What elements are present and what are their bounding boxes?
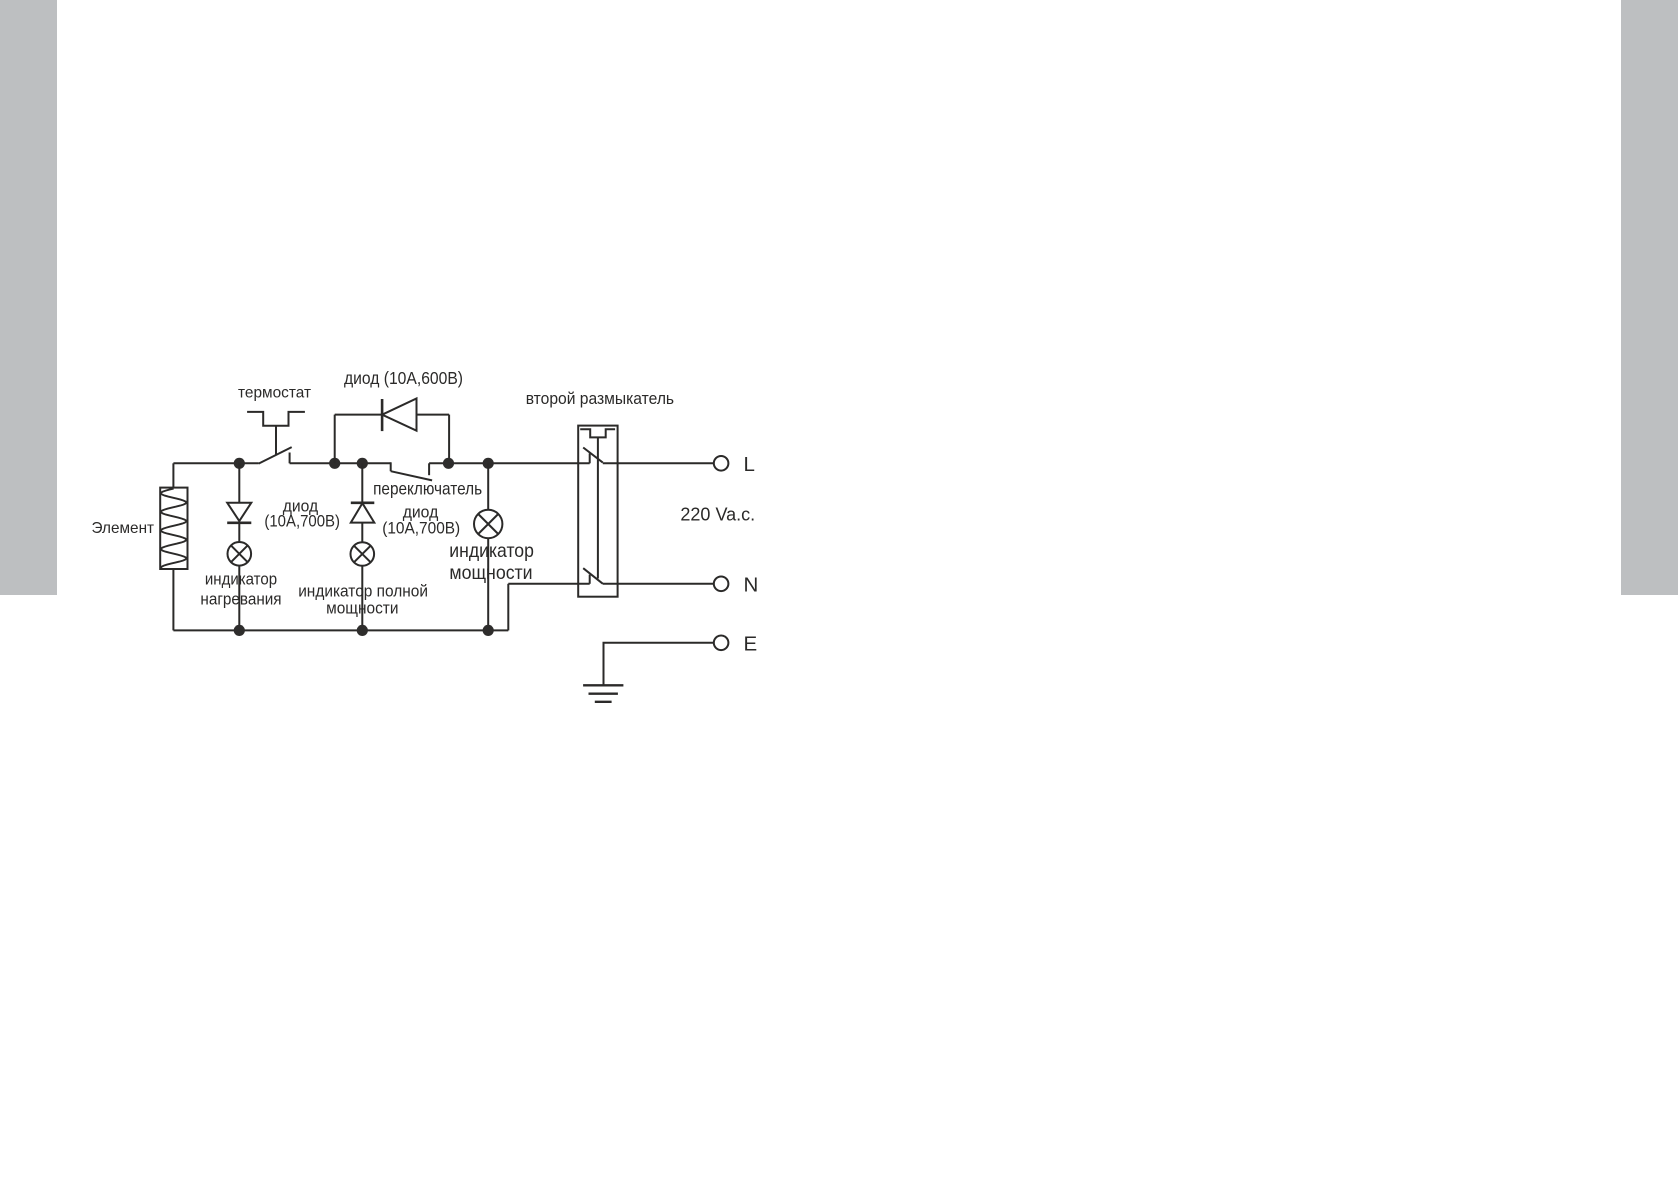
wire: element bottom lead [172, 569, 174, 630]
node: junction dot indicator-1 branch on L line [234, 458, 245, 469]
heating element EL1 coil [161, 489, 186, 569]
svg-text:индикатор: индикатор [449, 540, 534, 562]
terminal L circle [714, 456, 729, 471]
wire: branch 3 lamp to bottom line [487, 538, 489, 630]
svg-text:N: N [744, 573, 759, 596]
right gray margin bar [1621, 0, 1678, 595]
svg-text:(10А,700В): (10А,700В) [382, 518, 460, 537]
lamp HL1 heating indicator circle [228, 542, 252, 566]
wire: branch 1 upper lead [238, 463, 240, 502]
wire: main line selector to breaker [429, 462, 590, 464]
lamp HL2 full power indicator circle [351, 542, 375, 566]
lamp HL2 cross [354, 546, 371, 563]
diode D3 (10А,600В) cathode bar [381, 399, 384, 431]
breaker bimetal tab [580, 429, 615, 437]
svg-text:переключатель: переключатель [373, 479, 482, 499]
wire: left lead element top [172, 463, 174, 487]
svg-text:E: E [744, 632, 758, 655]
node: junction dot full-power branch [357, 458, 368, 469]
svg-text:(10А,700В): (10А,700В) [264, 512, 340, 531]
breaker N switch blade [583, 568, 603, 584]
thermostat TH1 switch blade [259, 447, 292, 464]
svg-text:мощности: мощности [449, 562, 532, 584]
wire: branch 1 diode to lamp [238, 523, 240, 542]
lamp HL1 cross [231, 545, 248, 562]
node: junction dot bottom line branch 2 [357, 625, 368, 636]
svg-text:второй размыкатель: второй размыкатель [526, 389, 675, 408]
node: junction dot power indicator branch [483, 458, 494, 469]
lamp HL3 cross [478, 514, 498, 534]
wire: D3 left lead [335, 414, 382, 416]
selector switch S2 right contact stub [428, 463, 430, 475]
wire: D3 right riser [448, 415, 450, 464]
selector switch S2 left step [390, 462, 392, 471]
breaker body (второй размыкатель) [578, 426, 617, 597]
ground symbol [583, 685, 623, 702]
svg-text:L: L [744, 453, 755, 476]
selector switch S2 blade [391, 471, 432, 480]
svg-text:220 Va.c.: 220 Va.c. [680, 505, 755, 525]
diode D1 (10А,700В) triangle [227, 503, 251, 521]
wire: main line from thermostat to selector [290, 462, 391, 464]
wire: bottom return line [173, 629, 508, 631]
node: junction dot bottom line branch 1 [234, 625, 245, 636]
thermostat TH1 stem [275, 426, 277, 455]
wire: N line to breaker [508, 583, 589, 585]
wire: D3 left riser [334, 415, 336, 464]
thermostat TH1 bimetal bracket [247, 412, 305, 426]
wire: branch 3 upper lead [487, 463, 489, 510]
svg-text:индикатор: индикатор [205, 570, 277, 588]
lamp HL3 power indicator circle [474, 510, 502, 538]
thermostat TH1 right contact tick [289, 453, 291, 464]
wire: branch 2 diode to lamp [361, 523, 363, 543]
terminal N circle [714, 577, 729, 592]
breaker L contact tick [589, 453, 591, 463]
wire: branch 2 lamp to bottom line [361, 566, 363, 631]
heating element EL1 body [160, 488, 187, 569]
breaker N contact tick [589, 575, 591, 584]
wire: L line breaker to terminal [603, 462, 714, 464]
diode D2 (10А,700В) triangle [351, 503, 375, 522]
breaker stem [597, 437, 599, 578]
svg-text:термостат: термостат [238, 385, 312, 402]
svg-text:Элемент: Элемент [92, 520, 155, 537]
wire: D3 right lead [417, 414, 450, 416]
svg-text:нагревания: нагревания [200, 591, 281, 609]
wire: earth lead [604, 643, 714, 685]
node: junction dot D3 right riser on L line [443, 458, 454, 469]
svg-text:диод (10А,600В): диод (10А,600В) [344, 368, 463, 388]
node: junction dot bottom line branch 3 [483, 625, 494, 636]
wire: main L line left segment [173, 462, 258, 464]
breaker L switch blade [583, 448, 603, 463]
wire: N riser step [507, 584, 509, 631]
wire: branch 1 lamp to bottom line [238, 566, 240, 631]
diode D2 cathode bar [351, 501, 375, 504]
terminal E circle [714, 636, 729, 651]
wire: N line breaker to terminal [603, 583, 714, 585]
node: junction dot 600V diode left riser [329, 458, 340, 469]
left gray margin bar [0, 0, 57, 595]
diode D3 triangle [382, 399, 416, 431]
diode D1 cathode bar [227, 521, 251, 524]
wire: branch 2 upper lead [361, 463, 363, 503]
